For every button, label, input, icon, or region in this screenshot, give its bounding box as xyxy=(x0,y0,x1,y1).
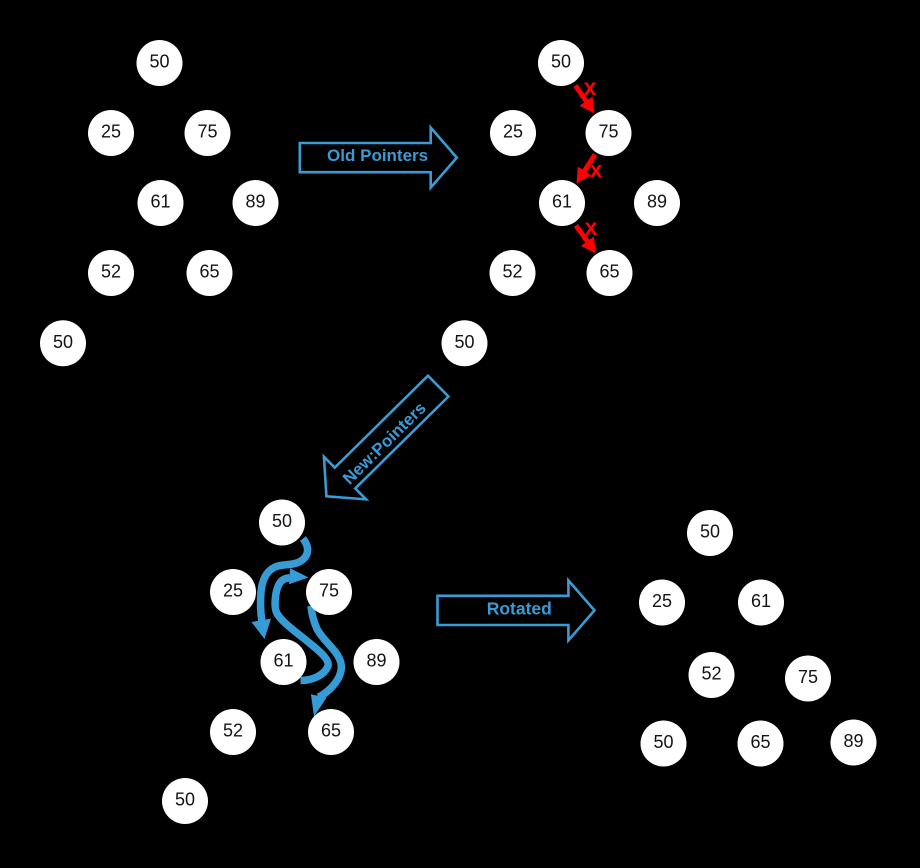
svg-text:50: 50 xyxy=(700,522,720,542)
svg-text:25: 25 xyxy=(652,591,672,611)
svg-text:89: 89 xyxy=(366,651,386,671)
svg-text:25: 25 xyxy=(223,581,243,601)
svg-text:52: 52 xyxy=(101,262,121,282)
svg-text:75: 75 xyxy=(197,122,217,142)
svg-text:52: 52 xyxy=(701,664,721,684)
svg-text:65: 65 xyxy=(599,262,619,282)
svg-text:x: x xyxy=(590,157,603,183)
svg-text:50: 50 xyxy=(149,52,169,72)
svg-text:50: 50 xyxy=(175,790,195,810)
svg-text:61: 61 xyxy=(751,591,771,611)
svg-text:89: 89 xyxy=(245,192,265,212)
svg-text:x: x xyxy=(584,74,597,100)
svg-text:89: 89 xyxy=(843,731,863,751)
svg-text:50: 50 xyxy=(272,511,292,531)
svg-text:52: 52 xyxy=(502,262,522,282)
svg-text:50: 50 xyxy=(454,332,474,352)
svg-text:65: 65 xyxy=(199,262,219,282)
svg-text:52: 52 xyxy=(223,721,243,741)
svg-text:Old Pointers: Old Pointers xyxy=(327,146,428,165)
svg-text:75: 75 xyxy=(598,122,618,142)
svg-text:61: 61 xyxy=(273,651,293,671)
svg-text:89: 89 xyxy=(647,192,667,212)
svg-text:50: 50 xyxy=(551,52,571,72)
svg-text:25: 25 xyxy=(503,122,523,142)
svg-text:65: 65 xyxy=(321,721,341,741)
svg-text:75: 75 xyxy=(798,667,818,687)
svg-text:x: x xyxy=(585,214,598,240)
svg-text:50: 50 xyxy=(53,332,73,352)
svg-text:61: 61 xyxy=(150,192,170,212)
svg-text:65: 65 xyxy=(750,732,770,752)
svg-text:50: 50 xyxy=(653,732,673,752)
svg-text:25: 25 xyxy=(101,122,121,142)
svg-text:Rotated: Rotated xyxy=(487,598,552,618)
svg-text:61: 61 xyxy=(552,192,572,212)
svg-text:75: 75 xyxy=(319,581,339,601)
